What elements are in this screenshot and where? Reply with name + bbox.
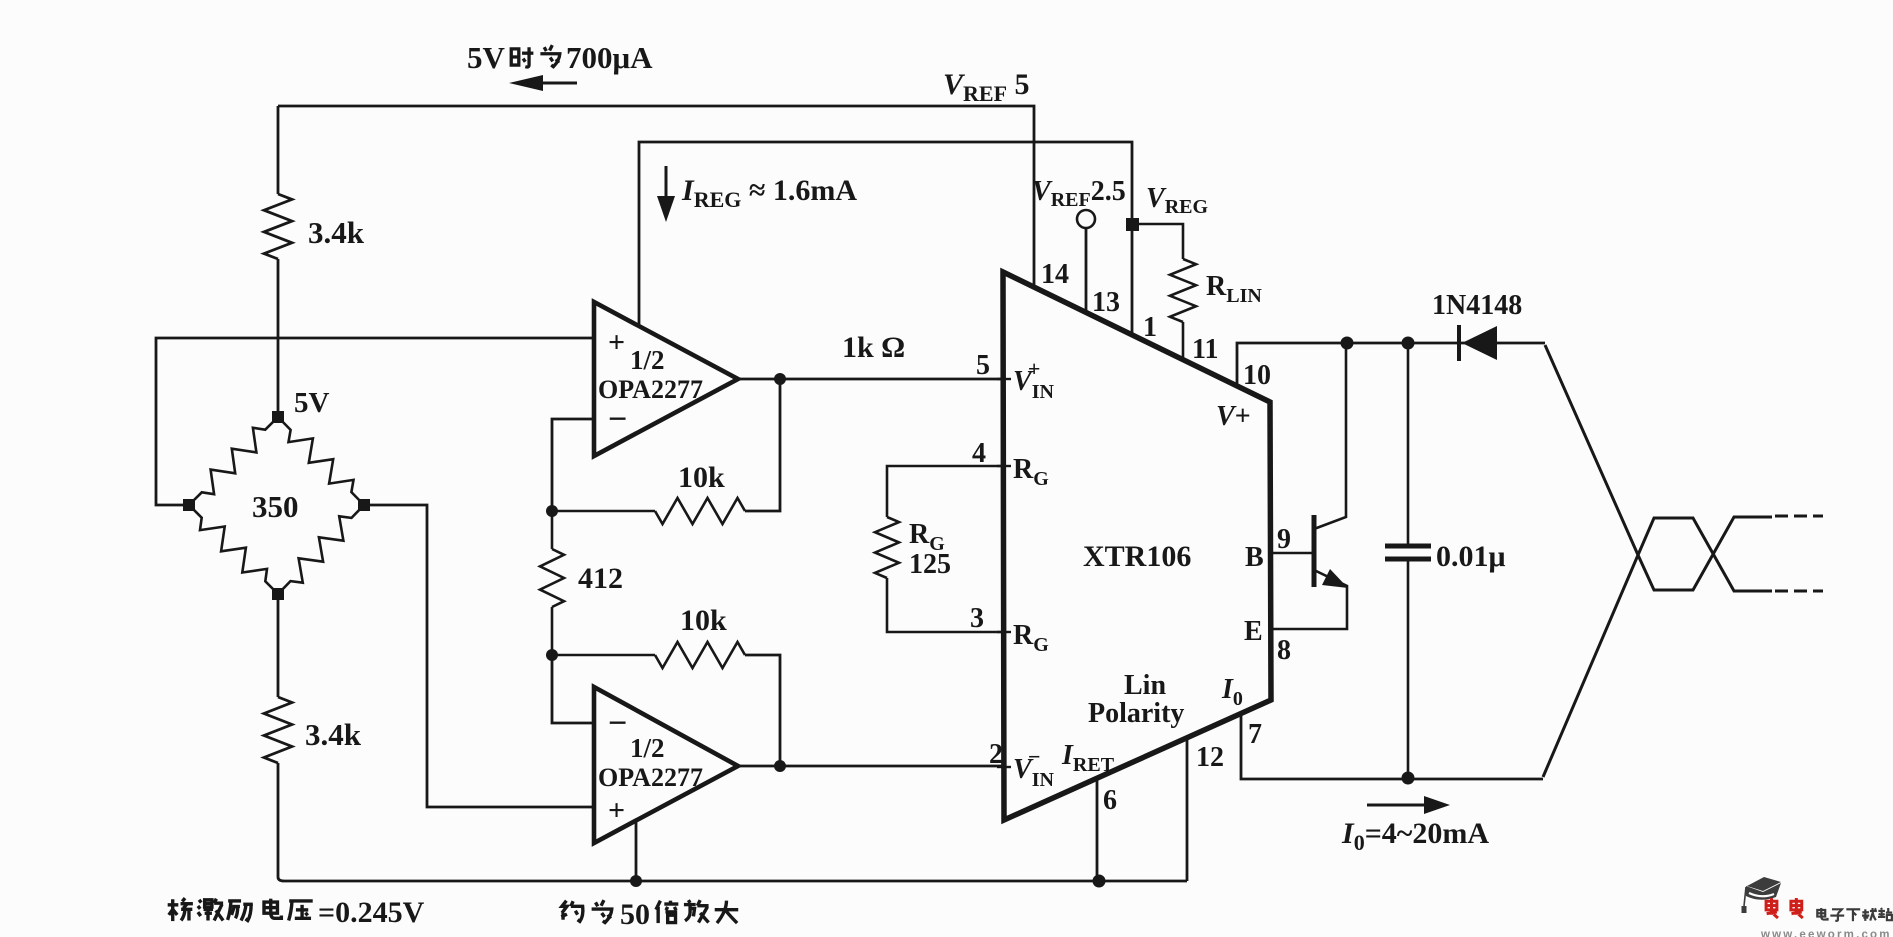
svg-text:−: −: [608, 401, 627, 438]
current arrow 700uA (points left): [509, 75, 577, 91]
svg-text:OPA2277: OPA2277: [598, 763, 703, 792]
svg-text:=0.245V: =0.245V: [318, 896, 425, 929]
svg-text:350: 350: [252, 489, 299, 524]
svg-text:RG: RG: [1013, 454, 1049, 490]
svg-text:I0=4~20mA: I0=4~20mA: [1341, 817, 1489, 855]
svg-text:3.4k: 3.4k: [305, 717, 362, 752]
svg-text:412: 412: [578, 562, 623, 595]
svg-text:V+: V+: [1216, 401, 1251, 432]
annotation qiao ji li dian ya =0.245V (bottom left): [168, 896, 425, 929]
svg-text:RG: RG: [1013, 620, 1049, 656]
svg-text:B: B: [1245, 542, 1264, 573]
bridge arm bottom-left: [189, 505, 278, 594]
op-amp U1A triangle: [594, 302, 738, 456]
junction pin 6 on rail: [1093, 875, 1106, 888]
wire pin 12 riser: [1186, 740, 1189, 881]
wire bridge left node to op-amp U1A + input: [156, 338, 594, 505]
twisted pair wire A: [1545, 345, 1772, 590]
svg-text:10k: 10k: [678, 461, 725, 494]
junction bridge left node: [183, 499, 195, 511]
junction collector on V+ rail: [1341, 337, 1354, 350]
pin 5 tick: [997, 378, 1011, 380]
watermark chongchong red text: [1766, 898, 1778, 918]
junction U1B ground: [630, 875, 642, 887]
wire bridge right node to op-amp U1B + input: [364, 505, 594, 807]
junction node B: [546, 649, 558, 661]
pin 2 tick: [997, 766, 1011, 768]
resistor R2 3.4k (bottom left): [264, 697, 292, 763]
wire U1B bottom to return rail: [635, 822, 638, 881]
svg-text:www.eeworm.com: www.eeworm.com: [1760, 929, 1892, 937]
svg-text:+: +: [608, 326, 625, 359]
wire bottom return rail: [278, 763, 1187, 881]
svg-text:2: 2: [989, 739, 1003, 770]
resistor R5 10k (U1B feedback): [552, 642, 745, 668]
svg-text:Polarity: Polarity: [1088, 698, 1184, 729]
svg-text:OPA2277: OPA2277: [598, 375, 703, 404]
terminal V_REF2.5 (pin 13): [1077, 210, 1095, 311]
resistor R4 412: [540, 511, 564, 655]
junction capacitor bottom: [1402, 772, 1415, 785]
svg-text:IRET: IRET: [1061, 740, 1115, 776]
IC XTR106 outline: [1003, 272, 1271, 820]
svg-text:0.01μ: 0.01μ: [1436, 540, 1506, 573]
svg-text:1/2: 1/2: [630, 345, 665, 375]
watermark graduation cap logo: [1742, 877, 1782, 913]
svg-text:I0: I0: [1221, 674, 1243, 710]
svg-text:VIN−: VIN−: [1013, 744, 1054, 791]
svg-text:13: 13: [1092, 287, 1120, 318]
junction bridge right node: [358, 499, 370, 511]
wire U1A - input to node A: [552, 419, 594, 511]
junction U1A output: [774, 373, 786, 385]
wire R1 top lead: [277, 106, 280, 194]
wire R3 to output: [745, 379, 780, 511]
wire bridge bottom node to R2: [277, 594, 280, 697]
svg-text:10k: 10k: [680, 604, 727, 637]
resistor R1 3.4k (top left): [264, 194, 292, 259]
bridge arm top-right: [278, 417, 364, 505]
wire pin 6 riser: [1096, 778, 1099, 881]
svg-text:4: 4: [972, 438, 986, 469]
svg-text:1N4148: 1N4148: [1432, 290, 1522, 321]
junction bridge top node: [272, 411, 284, 423]
wire V_REF5 rail from bridge supply to pin 14: [278, 106, 1034, 286]
junction U1B output: [774, 760, 786, 772]
svg-text:XTR106: XTR106: [1083, 540, 1191, 573]
svg-text:RLIN: RLIN: [1206, 271, 1262, 307]
wire R5 to U1B output: [745, 655, 780, 766]
bridge arm bottom-right: [278, 505, 364, 594]
pin 3 tick: [997, 631, 1011, 633]
capacitor C1 0.01u: [1385, 343, 1431, 778]
svg-text:5: 5: [976, 350, 990, 381]
junction node A: [546, 505, 558, 517]
svg-text:Lin: Lin: [1124, 670, 1166, 701]
svg-text:1k Ω: 1k Ω: [842, 331, 905, 364]
wire U1B output to XTR106 pin 2: [738, 765, 1004, 768]
resistor R3 10k (U1A feedback): [552, 498, 745, 524]
svg-text:+: +: [608, 794, 625, 827]
junction capacitor top: [1402, 337, 1415, 350]
diode D1 1N4148: [1459, 325, 1497, 361]
svg-text:3: 3: [970, 603, 984, 634]
svg-text:7: 7: [1248, 719, 1262, 750]
annotation 5V shi wei 700uA (top): [467, 40, 653, 75]
svg-text:5V: 5V: [467, 40, 506, 75]
twisted pair wire B: [1543, 518, 1772, 777]
svg-text:50: 50: [620, 898, 650, 931]
twisted pair dashes top: [1775, 515, 1823, 518]
svg-text:125: 125: [909, 549, 951, 580]
pin 4 tick: [997, 465, 1011, 467]
svg-text:14: 14: [1041, 259, 1069, 290]
wire V_REF rail 2 to U1A supply: [639, 142, 1132, 334]
watermark dianzi xiazaizhan text: [1817, 908, 1827, 920]
svg-text:5V: 5V: [294, 387, 330, 419]
junction bridge bottom node: [272, 588, 284, 600]
svg-text:E: E: [1244, 616, 1263, 647]
svg-text:8: 8: [1277, 635, 1291, 666]
svg-text:1: 1: [1143, 312, 1157, 343]
svg-text:VREG: VREG: [1146, 183, 1208, 218]
wire pin 7 to loop bottom: [1241, 713, 1543, 779]
wire U1A output to XTR106 pin 5 (1k): [738, 378, 1004, 381]
resistor R_LIN: [1132, 224, 1196, 360]
svg-text:700μA: 700μA: [566, 40, 653, 75]
op-amp U1B triangle: [594, 687, 738, 843]
svg-text:IREG ≈ 1.6mA: IREG ≈ 1.6mA: [681, 174, 857, 212]
junction V_REG: [1126, 218, 1139, 231]
svg-text:VREF 5: VREF 5: [943, 68, 1030, 106]
svg-text:1/2: 1/2: [630, 733, 665, 763]
wire R1 bottom lead to bridge top node: [277, 259, 280, 413]
svg-text:9: 9: [1277, 524, 1291, 555]
current arrow I_O (points right): [1367, 796, 1450, 814]
twisted pair dashes bottom: [1775, 590, 1823, 593]
resistor R_G 125 (gain set): [875, 466, 1004, 632]
svg-text:VIN+: VIN+: [1013, 356, 1054, 403]
wire pin 10 to V+ rail: [1237, 343, 1545, 385]
svg-text:10: 10: [1243, 360, 1271, 391]
svg-text:3.4k: 3.4k: [308, 215, 365, 250]
svg-text:6: 6: [1103, 785, 1117, 816]
svg-text:VREF2.5: VREF2.5: [1032, 176, 1126, 211]
transistor Q1 (inside loop): [1271, 343, 1348, 629]
wire U1B - input to node B: [552, 655, 594, 723]
svg-text:12: 12: [1196, 742, 1224, 773]
annotation yue wei 50 bei fang da (bottom middle): [561, 898, 738, 931]
bridge arm top-left (350 bridge): [189, 417, 278, 505]
svg-text:−: −: [608, 705, 627, 742]
svg-text:11: 11: [1192, 334, 1218, 365]
current arrow I_REG (down): [657, 166, 675, 222]
